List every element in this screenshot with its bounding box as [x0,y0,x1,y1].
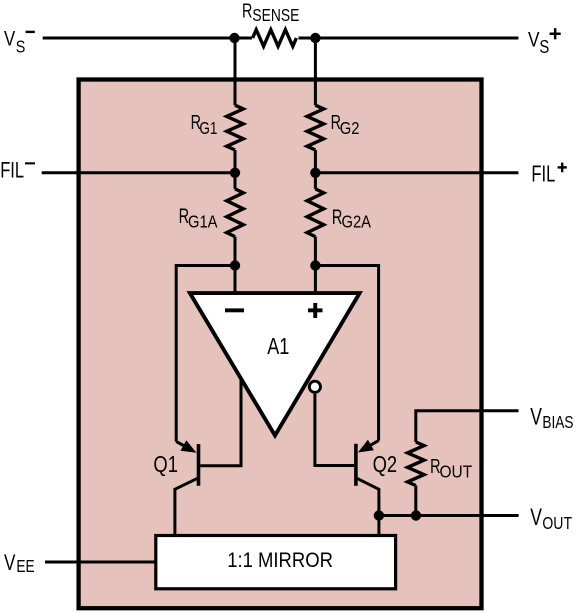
wire FIL- terminal [42,171,235,174]
svg-text:S: S [539,36,549,57]
wire RG2 to FIL+ node to RG2A [314,150,317,189]
1:1 MIRROR current mirror block [156,536,396,589]
svg-text:SENSE: SENSE [252,5,299,25]
transistor Q2 collector wire to VOUT node [356,478,379,535]
node FIL- junction [230,168,240,178]
svg-text:OUT: OUT [440,462,473,482]
svg-text:Q2: Q2 [373,452,398,477]
wire RSENSE right node down to RG2 [314,38,317,105]
op-amp non-inverting input pin (+) [308,308,323,312]
resistor RG2 [307,105,324,150]
svg-text:EE: EE [16,557,34,576]
transistor Q1 emitter with arrow [176,442,188,449]
wire RG1 to FIL- node to RG1A [234,150,237,189]
svg-text:S: S [16,37,26,57]
wire VBIAS terminal to ROUT [416,411,519,442]
op-amp inverting input pin (-) [225,308,244,312]
transistor Q2 base bar [354,444,358,486]
terminal label VS+ [528,28,561,58]
svg-text:G2: G2 [340,119,360,139]
terminal label VEE [4,551,35,577]
svg-text:G1: G1 [199,119,217,138]
terminal label VS- [4,28,35,57]
label ROUT [430,454,472,482]
label RG2 [331,111,360,139]
svg-text:V: V [530,505,542,531]
resistor ROUT [408,442,425,486]
resistor RG2A [307,189,324,237]
svg-text:1:1 MIRROR: 1:1 MIRROR [227,549,333,573]
svg-text:V: V [528,28,539,52]
svg-text:V: V [4,551,16,576]
op-amp output open circle [309,381,320,392]
node ROUT / VOUT junction [411,510,421,520]
terminal label VBIAS [530,404,573,433]
svg-text:BIAS: BIAS [542,414,573,433]
wire RSENSE right node to VS+ terminal [299,37,519,40]
wire RSENSE left node down to RG1 [234,38,237,105]
svg-text:R: R [242,0,252,22]
svg-text:V: V [530,404,542,430]
wire non-inverting node right branch [315,266,378,441]
terminal label VOUT [530,505,572,534]
label RSENSE [242,0,300,25]
svg-text:G2A: G2A [342,212,372,232]
wire VOUT rail from Q2 collector node to terminal [379,514,519,517]
label RG1A [179,204,218,231]
label RG1 [191,111,218,139]
svg-text:FIL: FIL [0,158,24,183]
transistor Q1 collector wire to mirror [175,478,199,537]
wire op-amp output circle to Q2 base [315,394,354,466]
node Q2 collector / VOUT junction [374,510,384,520]
node VS+ / RG2 junction [310,33,320,43]
svg-text:V: V [4,28,15,51]
wire VEE terminal to mirror block [45,561,156,564]
wire VS- terminal to RSENSE left node [43,37,252,40]
wire ROUT bottom to VOUT node [414,486,417,516]
resistor RG1A [227,189,244,237]
node FIL+ junction [310,168,320,178]
wire RG2A to non-inverting input node [314,237,317,294]
wire inverting node left branch [176,266,235,442]
svg-text:G1A: G1A [188,212,218,232]
wire FIL+ terminal [315,171,518,174]
resistor RG1 [227,105,244,150]
terminal label FIL+ [531,162,566,187]
resistor RSENSE [253,30,297,47]
node inverting input junction [230,260,240,270]
node non-inverting input junction [310,260,320,270]
transistor Q1 base bar [197,444,201,486]
transistor Q2 emitter with arrow [367,441,379,448]
wire RG1A to inverting input node [234,237,237,294]
wire op-amp left edge tap to Q1 base [200,379,241,466]
op-amp A1 triangle [190,293,360,435]
svg-text:OUT: OUT [542,513,572,533]
node VS- / RG1 junction [229,33,239,43]
svg-text:Q1: Q1 [153,452,178,477]
label RG2A [332,205,371,232]
IC body outline (shaded device box) [79,80,482,609]
svg-text:A1: A1 [267,334,289,360]
terminal label FIL- [0,158,35,183]
svg-text:FIL: FIL [531,162,555,187]
